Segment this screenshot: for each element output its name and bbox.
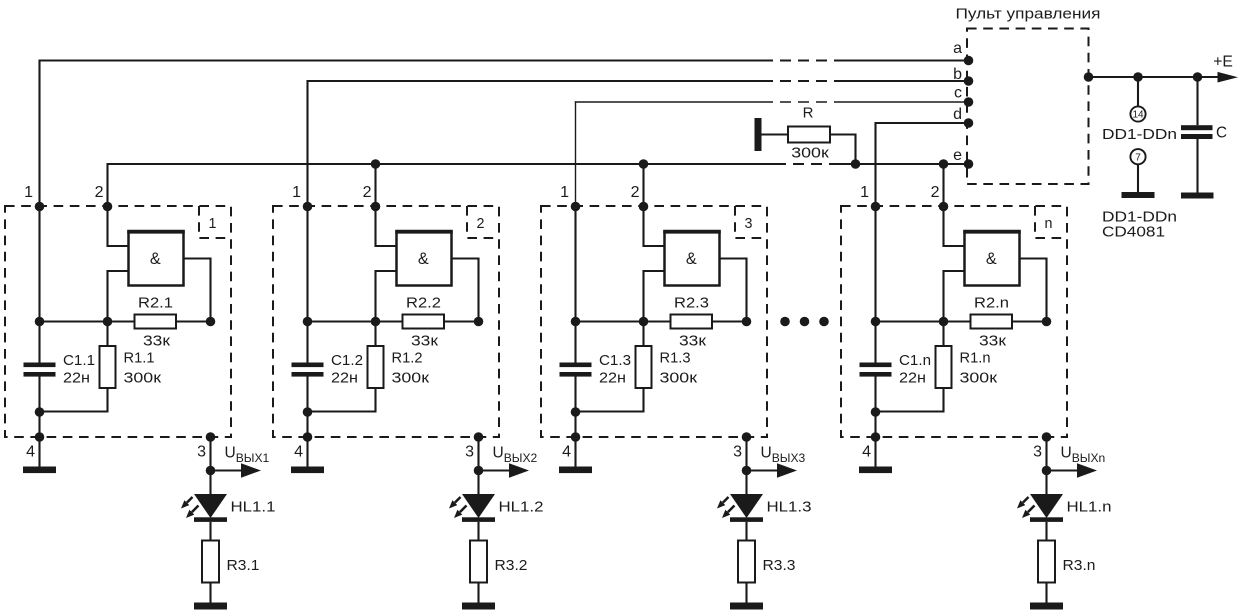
svg-text:d: d (953, 106, 962, 123)
ground (R3.1) (194, 603, 227, 610)
resistor R3.2 (470, 541, 487, 583)
junction left rail / R1 bottom (303, 407, 313, 417)
svg-text:R3.n: R3.n (1063, 558, 1096, 574)
junction left rail / R1 bottom (571, 407, 581, 417)
svg-text:300к: 300к (660, 371, 698, 387)
svg-text:CD4081: CD4081 (1102, 225, 1165, 241)
terminal bar of resistor R (755, 118, 762, 151)
svg-text:22н: 22н (599, 370, 626, 386)
wire gate output (1020, 258, 1047, 322)
wire gate input 1 (108, 207, 129, 247)
svg-text:3: 3 (465, 444, 474, 461)
pin 3 of cell 1 (197, 432, 215, 460)
wire pin1 down left rail (306, 207, 308, 364)
svg-text:b: b (953, 66, 962, 83)
wire capacitor C to ground (1196, 139, 1198, 193)
label DD1-DDn CD4081 (1102, 210, 1177, 241)
wire below capacitor (874, 377, 876, 438)
wire gate output (720, 258, 747, 322)
cell 2 dashed outline (273, 206, 499, 437)
cell n corner notch (1035, 206, 1067, 238)
panel pin b (953, 66, 973, 86)
ellipsis dots (more cells) (780, 317, 829, 327)
LED HL1.2 (462, 494, 495, 522)
svg-text:2: 2 (477, 216, 485, 232)
junction gate output / feedback row (742, 317, 752, 327)
LED emission arrows (717, 497, 735, 518)
resistor R (788, 127, 830, 143)
svg-text:R2.1: R2.1 (138, 296, 173, 312)
wire pin 3 down (745, 437, 747, 471)
wire below capacitor (306, 377, 308, 438)
junction: R output on wire e (851, 159, 861, 169)
svg-text:R2.n: R2.n (974, 296, 1009, 312)
resistor R1.n (936, 322, 952, 412)
wire R3 to ground (1045, 583, 1047, 603)
LED emission arrows (1017, 497, 1035, 518)
resistor R1.2 (368, 322, 384, 412)
wire gate input 2 (376, 271, 397, 322)
pin 4 of cell 1 (26, 432, 44, 460)
ground (pin 4) (23, 467, 56, 474)
output arrow U3 (747, 463, 798, 477)
svg-text:C1.n: C1.n (899, 353, 931, 369)
junction output n (1042, 466, 1052, 476)
svg-text:n: n (1045, 216, 1053, 232)
wire gate input 2 (944, 271, 965, 322)
svg-text:DD1-DDn: DD1-DDn (1102, 210, 1177, 226)
wire feedback row (308, 320, 479, 322)
junction on wire e at cell2 pin2 (371, 159, 381, 169)
svg-text:300к: 300к (124, 371, 162, 387)
ground (pin 4) (291, 467, 324, 474)
svg-text:UВЫХ1: UВЫХ1 (225, 445, 270, 466)
svg-text:22н: 22н (331, 370, 358, 386)
wire LED to R3 (477, 522, 479, 541)
svg-text:HL1.n: HL1.n (1067, 500, 1112, 516)
svg-text:3: 3 (733, 444, 742, 461)
ground (R3.3) (730, 603, 763, 610)
wire gate input 1 (944, 207, 965, 247)
svg-text:Пульт управления: Пульт управления (956, 7, 1101, 23)
panel pin a (953, 40, 973, 65)
svg-text:4: 4 (862, 444, 871, 461)
junction R1 top (939, 317, 949, 327)
svg-text:2: 2 (363, 184, 372, 201)
AND gate DD of cell 1 (127, 231, 185, 286)
wire pin 4 to ground (38, 437, 40, 467)
svg-text:4: 4 (294, 444, 303, 461)
LED HL1.n (1030, 494, 1063, 522)
capacitor C1.3 (560, 363, 592, 377)
AND gate DD of cell n (963, 231, 1021, 286)
LED HL1.3 (730, 494, 763, 522)
wire pin 7 to ground (1137, 164, 1139, 192)
svg-text:33к: 33к (143, 334, 171, 350)
svg-text:3: 3 (1033, 444, 1042, 461)
svg-text:&: & (686, 250, 697, 268)
junction R1 top (371, 317, 381, 327)
junction output 1 (206, 466, 216, 476)
AND gate DD of cell 3 (663, 231, 721, 286)
wire gate input 2 (108, 271, 129, 322)
wire feedback row (576, 320, 747, 322)
cell 3 dashed outline (541, 206, 767, 437)
svg-text:1: 1 (292, 184, 301, 201)
panel pin e (953, 147, 973, 169)
wire to capacitor C (1196, 77, 1198, 125)
wire LED to R3 (1045, 522, 1047, 541)
capacitor C1.n (860, 363, 892, 377)
junction pin1-rail / feedback row (303, 317, 313, 327)
svg-text:UВЫХ3: UВЫХ3 (761, 445, 806, 466)
wire gate input 2 (644, 271, 665, 322)
wire R1 bottom to left rail (307, 410, 377, 412)
svg-text:300к: 300к (960, 371, 998, 387)
svg-text:1: 1 (560, 184, 569, 201)
junction on wire e at cell3 pin2 (639, 159, 649, 169)
wire to LED (1045, 471, 1047, 496)
resistor R2.2 (403, 315, 445, 329)
wire gate input 1 (644, 207, 665, 247)
svg-text:2: 2 (931, 184, 940, 201)
svg-text:14: 14 (1132, 110, 1144, 121)
svg-text:R1.1: R1.1 (124, 351, 155, 367)
ground (R3.n) (1030, 603, 1063, 610)
panel pin c (954, 85, 973, 107)
wire pin 4 to ground (306, 437, 308, 467)
wire pin 4 to ground (874, 437, 876, 467)
resistor R1.3 (636, 322, 652, 412)
pin 1 of cell 3 (560, 184, 580, 211)
capacitor C1.2 (292, 363, 324, 377)
ground (pin 4) (859, 467, 892, 474)
wire pin 3 down (477, 437, 479, 471)
svg-text:HL1.1: HL1.1 (231, 500, 276, 516)
LED emission arrows (449, 497, 467, 518)
svg-text:2: 2 (631, 184, 640, 201)
wire gate output (452, 258, 479, 322)
wire feedback row (876, 320, 1047, 322)
wire R1 bottom to left rail (575, 410, 645, 412)
junction for pin 14 feed (1133, 72, 1143, 82)
svg-text:&: & (150, 250, 161, 268)
wire pin1 down left rail (874, 207, 876, 364)
junction gate output / feedback row (206, 317, 216, 327)
svg-text:R3.2: R3.2 (495, 558, 528, 574)
wire below capacitor (574, 377, 576, 438)
wire R3 to ground (209, 583, 211, 603)
wire LED to R3 (209, 522, 211, 541)
ground (capacitor C) (1181, 193, 1214, 199)
wire feedback row (40, 320, 211, 322)
pin 1 of cell n (860, 184, 880, 211)
wire to LED (477, 471, 479, 496)
junction R1 top (103, 317, 113, 327)
wire +E rail (1089, 76, 1220, 78)
svg-text:&: & (986, 250, 997, 268)
pin 3 of cell n (1033, 432, 1051, 460)
resistor R3.1 (202, 541, 219, 583)
svg-text:R1.2: R1.2 (392, 351, 423, 367)
wire to LED (745, 471, 747, 496)
junction gate output / feedback row (474, 317, 484, 327)
svg-text:DD1-DDn: DD1-DDn (1102, 127, 1177, 143)
svg-text:+E: +E (1213, 54, 1233, 71)
pin 4 of cell n (862, 432, 880, 460)
svg-text:33к: 33к (411, 334, 439, 350)
wire pin 3 down (209, 437, 211, 471)
cell 1 dashed outline (5, 206, 231, 437)
junction output 3 (742, 466, 752, 476)
capacitor C (1181, 125, 1213, 139)
label R1.1 300к (124, 351, 162, 387)
svg-text:7: 7 (1135, 152, 1141, 163)
svg-text:22н: 22н (63, 370, 90, 386)
wire: bar to resistor R (762, 133, 789, 135)
wire R3 to ground (477, 583, 479, 603)
junction R1 top (639, 317, 649, 327)
pin 3 of cell 2 (465, 432, 483, 460)
svg-text:22н: 22н (899, 370, 926, 386)
cell 3 corner notch (735, 206, 767, 238)
label R1.2 300к (392, 351, 430, 387)
cell 2 corner notch (467, 206, 499, 238)
svg-text:C1.3: C1.3 (599, 353, 631, 369)
svg-text:R3.1: R3.1 (227, 558, 260, 574)
svg-text:HL1.2: HL1.2 (499, 500, 544, 516)
svg-text:R2.2: R2.2 (406, 296, 441, 312)
resistor R2.3 (671, 315, 713, 329)
svg-text:R: R (803, 105, 814, 122)
svg-text:4: 4 (26, 444, 35, 461)
svg-text:1: 1 (209, 216, 217, 232)
wire to pin 14 circle (1137, 77, 1139, 106)
ground (R3.2) (462, 603, 495, 610)
label R1.3 300к (660, 351, 698, 387)
pin 2 of cell 3 (631, 184, 649, 211)
pin 2 of cell n (931, 184, 949, 211)
label C1.3 22н (599, 353, 631, 386)
capacitor C1.1 (24, 363, 56, 377)
junction pin1-rail / feedback row (871, 317, 881, 327)
junction left rail / R1 bottom (35, 407, 45, 417)
cell 1 corner notch (199, 206, 231, 238)
svg-text:a: a (953, 40, 962, 57)
output arrow U2 (479, 463, 530, 477)
svg-text:R1.n: R1.n (960, 351, 991, 367)
pin 1 of cell 2 (292, 184, 312, 211)
svg-text:2: 2 (95, 184, 104, 201)
svg-text:R1.3: R1.3 (660, 351, 691, 367)
panel pin d (953, 106, 973, 128)
wire b (cell2 pin1 to panel pin b) (307, 80, 969, 207)
LED HL1.1 (194, 494, 227, 522)
pin 2 of cell 1 (95, 184, 113, 211)
svg-text:R2.3: R2.3 (674, 296, 709, 312)
junction output 2 (474, 466, 484, 476)
junction pin1-rail / feedback row (571, 317, 581, 327)
wire pin 3 down (1045, 437, 1047, 471)
pin 4 of cell 2 (294, 432, 312, 460)
wire R1 bottom to left rail (39, 410, 109, 412)
wire to LED (209, 471, 211, 496)
wire d (cell n pin1 to panel pin d) (875, 122, 969, 207)
svg-text:1: 1 (24, 184, 33, 201)
pin 14 circle (1130, 106, 1145, 121)
resistor R3.3 (738, 541, 755, 583)
wire gate output (184, 258, 211, 322)
svg-text:C1.1: C1.1 (63, 353, 95, 369)
wire: resistor R to wire e (830, 134, 856, 165)
svg-text:C1.2: C1.2 (331, 353, 363, 369)
ground (pin 4) (559, 467, 592, 474)
AND gate DD of cell 2 (395, 231, 453, 286)
wire c (cell3 pin1 to panel pin c) (575, 101, 968, 207)
svg-text:33к: 33к (679, 334, 707, 350)
svg-text:1: 1 (860, 184, 869, 201)
control panel dashed box (967, 29, 1089, 185)
label C1.1 22н (63, 353, 95, 386)
svg-text:300к: 300к (791, 146, 829, 162)
svg-text:300к: 300к (392, 371, 430, 387)
svg-text:UВЫХ2: UВЫХ2 (493, 445, 538, 466)
wire pin1 down left rail (574, 207, 576, 364)
output arrow U1 (211, 463, 262, 477)
wire R1 bottom to left rail (875, 410, 945, 412)
ground (pin 7) (1122, 192, 1155, 198)
pin 4 of cell 3 (562, 432, 580, 460)
wire a (cell1 pin1 to panel pin a) (39, 60, 969, 208)
resistor R2.n (971, 315, 1013, 329)
resistor R3.n (1038, 541, 1055, 583)
resistor R1.1 (100, 322, 116, 412)
svg-text:3: 3 (745, 216, 753, 232)
junction pin1-rail / feedback row (35, 317, 45, 327)
wire LED to R3 (745, 522, 747, 541)
wire: cell2 pin2 to wire e (374, 164, 376, 207)
resistor R2.1 (135, 315, 177, 329)
pin 7 circle (1130, 149, 1145, 164)
svg-text:4: 4 (562, 444, 571, 461)
pin 1 of cell 1 (24, 184, 44, 211)
label C1.2 22н (331, 353, 363, 386)
wire pin 4 to ground (574, 437, 576, 467)
wire R3 to ground (745, 583, 747, 603)
pin 3 of cell 3 (733, 432, 751, 460)
label R1.n 300к (960, 351, 998, 387)
svg-text:&: & (418, 250, 429, 268)
wire below capacitor (38, 377, 40, 438)
wire gate input 1 (376, 207, 397, 247)
junction for capacitor C (1193, 72, 1203, 82)
wire: cell n pin2 to wire e (942, 164, 944, 207)
output arrow Un (1047, 463, 1098, 477)
LED emission arrows (181, 497, 199, 518)
junction gate output / feedback row (1042, 317, 1052, 327)
junction on wire e at cell n pin2 (939, 159, 949, 169)
svg-text:HL1.3: HL1.3 (767, 500, 812, 516)
svg-text:C: C (1216, 125, 1227, 142)
junction left rail / R1 bottom (871, 407, 881, 417)
pin 2 of cell 2 (363, 184, 381, 211)
svg-text:33к: 33к (979, 334, 1007, 350)
svg-text:R3.3: R3.3 (763, 558, 796, 574)
svg-text:UВЫХn: UВЫХn (1061, 445, 1106, 466)
wire: cell3 pin2 to wire e (642, 164, 644, 207)
wire e (common line to panel pin e) (107, 163, 969, 207)
wire pin1 down left rail (38, 207, 40, 364)
cell n dashed outline (841, 206, 1067, 437)
svg-text:c: c (954, 85, 962, 102)
label C1.n 22н (899, 353, 931, 386)
arrow +E (1218, 72, 1239, 83)
svg-text:3: 3 (197, 444, 206, 461)
svg-text:e: e (953, 147, 962, 164)
junction at panel output (1084, 72, 1094, 82)
